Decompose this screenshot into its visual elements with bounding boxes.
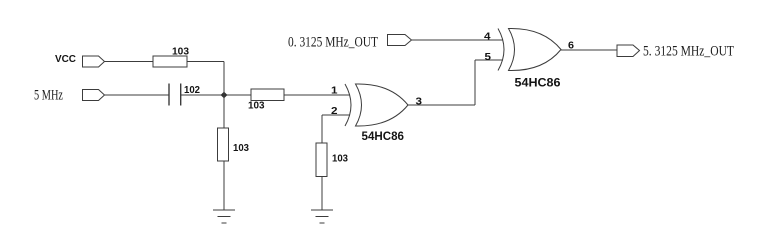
resistor R4 103 xyxy=(316,143,348,177)
svg-text:54HC86: 54HC86 xyxy=(515,76,561,90)
wire VCC port to R1 xyxy=(105,61,154,63)
xor gate U2 54HC86 xyxy=(498,28,561,89)
capacitor C1 102 xyxy=(169,84,200,106)
svg-text:54HC86: 54HC86 xyxy=(362,129,405,143)
svg-text:103: 103 xyxy=(233,143,249,154)
wire U1 pin2 xyxy=(322,114,350,116)
svg-text:103: 103 xyxy=(248,101,265,112)
wire R1 to node A xyxy=(187,61,224,63)
xor gate U1 54HC86 xyxy=(345,84,408,143)
wire vertical node A column xyxy=(223,62,225,129)
svg-text:6: 6 xyxy=(568,40,574,52)
ground left xyxy=(213,210,235,223)
wire vertical pin3 to pin5 xyxy=(474,60,476,105)
svg-text:103: 103 xyxy=(332,154,348,165)
wire port to U2 pin4 xyxy=(412,39,504,41)
svg-text:0. 3125 MHz_OUT: 0. 3125 MHz_OUT xyxy=(288,35,378,51)
wire R3 to ground xyxy=(223,161,225,210)
svg-text:4: 4 xyxy=(484,31,491,43)
wire U2 output pin6 xyxy=(561,49,617,51)
wire U1 output pin3 xyxy=(408,104,475,106)
ground right xyxy=(311,210,333,223)
svg-text:102: 102 xyxy=(184,85,200,96)
port 5MHz xyxy=(83,90,105,101)
svg-text:5. 3125 MHz_OUT: 5. 3125 MHz_OUT xyxy=(643,44,734,60)
svg-text:5 MHz: 5 MHz xyxy=(34,88,63,104)
wire pin2 down to R4 xyxy=(321,115,323,143)
wire U2 pin5 xyxy=(475,59,503,61)
resistor R3 103 xyxy=(218,128,250,161)
svg-text:VCC: VCC xyxy=(55,54,76,65)
wire 5MHz port to C1 xyxy=(105,94,170,96)
svg-text:3: 3 xyxy=(416,96,423,108)
svg-text:1: 1 xyxy=(331,85,338,97)
wire C1 to R2 through node A xyxy=(181,94,251,96)
resistor R2 103 xyxy=(248,89,284,112)
wire R4 to ground xyxy=(321,177,323,211)
svg-text:5: 5 xyxy=(485,51,492,63)
svg-text:2: 2 xyxy=(331,105,338,117)
node A junction xyxy=(221,92,228,99)
port 0.3125 MHz_OUT xyxy=(388,35,412,46)
resistor R1 103 xyxy=(153,47,189,68)
port 5.3125 MHz_OUT xyxy=(617,45,640,57)
wire R2 to U1 pin1 xyxy=(284,94,350,96)
port VCC xyxy=(83,56,105,67)
svg-text:103: 103 xyxy=(172,47,189,58)
